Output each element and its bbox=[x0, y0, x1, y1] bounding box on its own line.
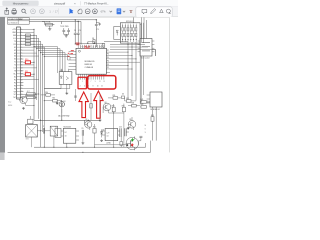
svg-text:D6: D6 bbox=[122, 94, 124, 96]
wire bbox=[56, 101, 58, 102]
circle around diode D3 bbox=[59, 102, 64, 107]
chip X3 bbox=[28, 119, 33, 124]
panel icon: comment bubble bbox=[142, 9, 147, 14]
wire bbox=[28, 119, 34, 121]
svg-text:11: 11 bbox=[99, 81, 101, 83]
wires to right bus bbox=[110, 51, 128, 53]
resistor R31 bbox=[113, 97, 118, 100]
test socket inner hatch bbox=[142, 42, 150, 44]
pin 4 wire bbox=[20, 37, 23, 39]
wire bbox=[113, 115, 115, 147]
red annotation mark bbox=[131, 143, 133, 146]
vertical bus mid bbox=[57, 47, 59, 73]
resistor RN1b bbox=[122, 33, 123, 37]
svg-text:L4960: L4960 bbox=[106, 143, 111, 145]
svg-text:R32: R32 bbox=[126, 98, 129, 100]
svg-text:R15: R15 bbox=[52, 98, 55, 100]
svg-text:D4: D4 bbox=[102, 130, 104, 132]
wire bbox=[23, 46, 44, 48]
wire y105 bbox=[61, 109, 63, 120]
wire bbox=[130, 24, 132, 28]
svg-text:MC68HC05: MC68HC05 bbox=[85, 61, 95, 63]
wire bbox=[124, 24, 126, 28]
pin 17 wire bbox=[20, 76, 23, 78]
wire bbox=[23, 88, 34, 90]
IC U3 bbox=[26, 125, 38, 137]
relay K1 bbox=[50, 126, 57, 136]
panel icon: loop bbox=[166, 9, 170, 13]
wire stubs top-left of IC bbox=[73, 46, 76, 48]
wire bbox=[75, 89, 77, 101]
ground bbox=[65, 34, 67, 35]
svg-text:B72: B72 bbox=[26, 139, 29, 141]
capacitor C9 bbox=[81, 130, 83, 136]
svg-text:R14: R14 bbox=[45, 92, 48, 94]
svg-text:04: 04 bbox=[107, 136, 109, 138]
wire bbox=[132, 24, 134, 28]
op-amp IC U1 bbox=[76, 48, 106, 74]
svg-text:R35: R35 bbox=[122, 105, 125, 107]
svg-text:C3: C3 bbox=[74, 30, 76, 32]
toolbar icon: hand bbox=[78, 9, 82, 14]
resistor RN4b bbox=[130, 33, 131, 37]
pin 11 wire bbox=[20, 58, 23, 60]
capacitor C10 bbox=[119, 128, 121, 137]
toolbar icon: print bbox=[12, 11, 16, 14]
page right edge bbox=[168, 17, 170, 152]
svg-text:C8: C8 bbox=[43, 126, 45, 128]
wire bbox=[23, 76, 34, 78]
svg-text:R42: R42 bbox=[141, 104, 144, 106]
wire bbox=[23, 64, 34, 66]
pin 15 wire bbox=[20, 70, 23, 72]
svg-text:C4: C4 bbox=[79, 30, 81, 32]
IC U1 right pins bbox=[106, 51, 110, 53]
svg-text:67%: 67% bbox=[101, 10, 107, 13]
ground bbox=[101, 139, 103, 140]
svg-text:20: 20 bbox=[95, 47, 97, 49]
toolbar icon: cursor (active blue) bbox=[70, 9, 74, 14]
wire bbox=[23, 31, 34, 33]
pin 19 wire bbox=[20, 82, 23, 84]
pin 6 wire bbox=[20, 43, 23, 45]
wire mid horizontal bbox=[34, 119, 100, 121]
wire bbox=[23, 67, 36, 69]
wire bbox=[75, 43, 78, 45]
capacitor C8 bbox=[42, 128, 44, 134]
wire bbox=[80, 22, 82, 44]
bridge diode box D1 bbox=[114, 27, 121, 40]
page view icon (blue) bbox=[117, 8, 122, 14]
pin 12 wire bbox=[20, 61, 23, 63]
tab: tools chip bbox=[3, 1, 39, 6]
title block bbox=[8, 18, 30, 25]
resistor R2 bbox=[25, 37, 30, 40]
resistor R11 (red highlight) bbox=[23, 73, 25, 75]
svg-text:3: 3 bbox=[82, 81, 83, 83]
svg-text:R41: R41 bbox=[141, 99, 144, 101]
wire bbox=[23, 94, 36, 96]
annotation panel bbox=[136, 7, 172, 17]
resistor R33 bbox=[132, 104, 137, 107]
transistor Q1 bbox=[20, 96, 27, 103]
bus top joins bbox=[104, 41, 128, 43]
svg-text:P7: P7 bbox=[107, 50, 109, 52]
pin 22 wire bbox=[20, 91, 23, 93]
diode D3 bbox=[61, 100, 63, 109]
svg-text:10: 10 bbox=[97, 86, 99, 88]
ground bbox=[99, 119, 101, 120]
svg-text:4K7: 4K7 bbox=[27, 91, 30, 93]
red annotation big box bbox=[88, 76, 116, 89]
pin 23 wire bbox=[20, 94, 23, 96]
ground bbox=[49, 28, 51, 29]
pin 8 wire bbox=[20, 49, 23, 51]
resistor RN3b bbox=[127, 33, 128, 37]
resistor RN1a bbox=[122, 25, 123, 26]
svg-text:R33: R33 bbox=[131, 103, 134, 105]
wire bbox=[25, 95, 27, 97]
wire socket down 2 bbox=[143, 56, 145, 95]
wire bbox=[23, 43, 42, 45]
wire bbox=[139, 101, 142, 103]
pin 7 wire bbox=[20, 46, 23, 48]
ground bbox=[99, 22, 101, 25]
wire bbox=[127, 24, 129, 28]
svg-text:CLIMA 98: CLIMA 98 bbox=[85, 66, 93, 69]
page top edge bbox=[5, 16, 169, 18]
capacitor C4 bbox=[77, 32, 80, 34]
pin 2 wire bbox=[20, 31, 23, 33]
resistor R41 bbox=[141, 101, 146, 104]
svg-text:P3: P3 bbox=[14, 85, 16, 87]
circle around diode D3 bbox=[59, 102, 64, 107]
toolbar icon: zoom out bbox=[85, 9, 90, 14]
svg-text:SP105.R: SP105.R bbox=[126, 21, 134, 23]
svg-text:S1: S1 bbox=[14, 47, 16, 49]
ground bbox=[56, 101, 58, 104]
svg-text:Test socket: Test socket bbox=[141, 57, 150, 60]
svg-text:Q3: Q3 bbox=[129, 119, 131, 121]
capacitor C11 bbox=[124, 128, 126, 136]
svg-text:C9: C9 bbox=[81, 128, 83, 130]
resistor R20 bbox=[103, 43, 105, 47]
svg-text:7: 7 bbox=[90, 81, 91, 83]
svg-text:K-L: K-L bbox=[13, 38, 16, 40]
resistor R34 bbox=[112, 107, 115, 112]
svg-text:GND4: GND4 bbox=[8, 105, 12, 107]
transistor Q4 bbox=[103, 103, 111, 111]
pin 3 wire bbox=[20, 34, 23, 36]
svg-text:S5: S5 bbox=[14, 59, 16, 61]
vertical bus lines left bbox=[33, 29, 35, 120]
connector J1 bbox=[17, 27, 21, 99]
red annotation small box bbox=[78, 77, 86, 89]
bottom bus wires bbox=[34, 146, 146, 148]
svg-text:R11: R11 bbox=[25, 71, 28, 73]
wire bbox=[26, 104, 34, 106]
wire bbox=[134, 135, 141, 137]
svg-text:B6FN 05: B6FN 05 bbox=[85, 64, 92, 66]
svg-text:9: 9 bbox=[95, 81, 96, 83]
resistor RN4a bbox=[130, 25, 131, 26]
capacitor C12 bbox=[139, 135, 142, 137]
wire bbox=[23, 49, 34, 51]
svg-text:12.73.00.00: 12.73.00.00 bbox=[8, 22, 17, 24]
junction dots bbox=[33, 46, 34, 47]
resistor RN5a bbox=[133, 25, 134, 26]
svg-text:T2: T2 bbox=[14, 65, 16, 67]
resistor R35 bbox=[122, 107, 125, 112]
left viewer strip bbox=[0, 17, 5, 153]
capacitor C2 bbox=[68, 28, 70, 30]
resistor RN2a bbox=[125, 25, 126, 26]
pin 13 wire bbox=[20, 64, 23, 66]
svg-text:R21: R21 bbox=[93, 127, 96, 129]
pin 24 wire bbox=[20, 96, 23, 98]
IC U6 bbox=[150, 92, 162, 107]
pin 16 wire bbox=[20, 73, 23, 75]
svg-text:P4: P4 bbox=[107, 60, 109, 62]
red pin label marks bbox=[21, 21, 156, 131]
wire bbox=[23, 34, 36, 36]
svg-text:L29: L29 bbox=[107, 132, 110, 134]
svg-text:Инструменты: Инструменты bbox=[13, 2, 29, 5]
wire bbox=[23, 37, 38, 39]
ground bbox=[127, 126, 129, 129]
svg-text:Q4: Q4 bbox=[104, 102, 106, 104]
svg-text:R34: R34 bbox=[112, 105, 115, 107]
resistor R13 bbox=[27, 96, 36, 99]
OK1 pins bbox=[60, 84, 62, 88]
junction dots on left bus bbox=[34, 29, 35, 30]
svg-text:P2: P2 bbox=[14, 82, 16, 84]
svg-text:R31: R31 bbox=[113, 95, 116, 97]
transistor Q2 bbox=[85, 121, 92, 128]
svg-text:P1: P1 bbox=[14, 79, 16, 81]
svg-text:34: 34 bbox=[65, 135, 67, 137]
capacitor C1 bbox=[63, 28, 65, 30]
wire bbox=[53, 136, 55, 147]
red annotation arrow 1 bbox=[79, 92, 88, 118]
IC U4 bbox=[63, 128, 76, 143]
pdf page bbox=[0, 17, 178, 160]
wire bbox=[23, 28, 34, 30]
svg-text:77-Markus Freye-Kl...: 77-Markus Freye-Kl... bbox=[84, 1, 109, 5]
wire bbox=[122, 24, 124, 28]
svg-text:R5: R5 bbox=[92, 38, 94, 40]
resistor R10 (red highlight) bbox=[23, 61, 25, 63]
ground bbox=[23, 107, 25, 108]
wire behind arrows bbox=[90, 93, 92, 120]
toolbar icon: zoom in bbox=[93, 9, 98, 14]
panel icon: pen bbox=[151, 9, 156, 14]
pin 5 wire bbox=[20, 40, 23, 42]
wire bbox=[37, 130, 42, 132]
wire below opto bbox=[44, 88, 61, 90]
svg-text:P2: P2 bbox=[107, 67, 109, 69]
svg-text:S3: S3 bbox=[14, 53, 16, 55]
junction dot bbox=[127, 144, 129, 146]
IC U1 bottom pins bbox=[77, 74, 79, 79]
wires into IC left pins bbox=[68, 59, 73, 61]
toolbar icon: circled up (disabled) bbox=[31, 9, 36, 14]
IC U5 bbox=[105, 129, 118, 141]
IC U1 top pins bbox=[77, 45, 79, 49]
resistor R1 bbox=[25, 34, 30, 37]
svg-text:P6: P6 bbox=[107, 54, 109, 56]
green annotation arrow bbox=[131, 138, 133, 141]
pin 10 wire bbox=[20, 55, 23, 57]
wire below opto bbox=[44, 88, 61, 90]
resistor R12 bbox=[27, 93, 36, 96]
resistor R3 bbox=[25, 40, 30, 43]
svg-text:C10: C10 bbox=[119, 126, 122, 128]
svg-text:P5: P5 bbox=[107, 57, 109, 59]
svg-text:R10: R10 bbox=[25, 59, 28, 61]
wire bbox=[87, 121, 89, 125]
IC X2 test socket bbox=[141, 17, 143, 38]
resistor RN6b bbox=[136, 33, 137, 37]
svg-text:12: 12 bbox=[101, 86, 103, 88]
svg-text:23: 23 bbox=[88, 47, 90, 49]
resistor R21 bbox=[93, 128, 96, 133]
svg-text:26: 26 bbox=[82, 47, 84, 49]
resistor R15 bbox=[53, 99, 58, 102]
pin 20 wire bbox=[20, 85, 23, 87]
capacitor C3 bbox=[74, 32, 77, 34]
wire bbox=[135, 24, 137, 28]
pin 14 wire bbox=[20, 67, 23, 69]
resistor R5 bbox=[93, 40, 95, 44]
wire bbox=[23, 52, 36, 54]
wire bbox=[23, 79, 38, 81]
fuse F1 bbox=[42, 21, 45, 23]
toolbar icon: circled down (disabled) bbox=[40, 9, 45, 14]
pin 9 wire bbox=[20, 52, 23, 54]
top right extended wires bbox=[152, 49, 156, 51]
svg-text:S2: S2 bbox=[67, 115, 69, 117]
svg-text:K1: K1 bbox=[55, 127, 57, 129]
resistor R14 bbox=[46, 94, 51, 97]
svg-text:F1: F1 bbox=[46, 21, 48, 23]
wire bbox=[23, 40, 40, 42]
resistor R43 bbox=[151, 117, 154, 122]
svg-text:C5: C5 bbox=[97, 29, 99, 31]
wire stubs top-left of IC bbox=[73, 46, 76, 48]
resistor R4 bbox=[25, 43, 30, 46]
svg-text:Q2: Q2 bbox=[85, 119, 87, 121]
svg-text:17: 17 bbox=[101, 47, 103, 49]
svg-text:1K: 1K bbox=[26, 95, 28, 97]
wire bbox=[23, 55, 38, 57]
svg-text:D3: D3 bbox=[63, 101, 65, 103]
wire bbox=[56, 101, 58, 102]
toolbar icon: search magnifier bbox=[22, 9, 25, 12]
panel icon: shape bbox=[160, 9, 164, 13]
wire bbox=[140, 23, 142, 43]
wire pair down from bus bbox=[74, 20, 76, 33]
browser chrome background bbox=[0, 0, 178, 6]
ground bbox=[66, 92, 68, 93]
svg-text:M+: M+ bbox=[14, 74, 16, 76]
bus fan wires bbox=[34, 46, 58, 48]
test socket inner hatch bbox=[142, 42, 150, 44]
transistor Q5 (annotated) bbox=[126, 137, 138, 149]
zener D4 bbox=[101, 129, 103, 137]
box X4 bbox=[55, 128, 61, 137]
svg-text:MC34063: MC34063 bbox=[64, 127, 71, 129]
svg-text:cimca.pdf: cimca.pdf bbox=[54, 1, 65, 5]
svg-text:P3: P3 bbox=[107, 64, 109, 66]
resistor R17 bbox=[90, 104, 93, 108]
svg-text:TJ13 7805: TJ13 7805 bbox=[60, 26, 69, 28]
pin 18 wire bbox=[20, 79, 23, 81]
svg-text:R43: R43 bbox=[151, 115, 154, 117]
junction dots on left bus bbox=[34, 29, 35, 30]
wire bbox=[22, 27, 24, 29]
wire bbox=[95, 144, 126, 146]
resistor R32 bbox=[126, 100, 131, 103]
resistor R42 bbox=[141, 106, 146, 109]
top bus wires bbox=[8, 19, 97, 21]
ground bbox=[127, 126, 129, 129]
capacitor C5 bbox=[95, 20, 97, 25]
svg-text:T1: T1 bbox=[14, 62, 16, 64]
svg-text:S4: S4 bbox=[14, 56, 16, 58]
resistor RN5b bbox=[133, 33, 134, 37]
resistor RN6a bbox=[136, 25, 137, 26]
transistor Q3 bbox=[128, 121, 136, 129]
wire bbox=[57, 100, 62, 102]
svg-text:X1-2: X1-2 bbox=[8, 102, 11, 104]
wire bbox=[61, 88, 70, 90]
toolbar icon: share bbox=[5, 10, 9, 14]
pin 1 wire bbox=[20, 28, 23, 30]
ground bbox=[82, 142, 84, 143]
svg-text:S2: S2 bbox=[14, 50, 16, 52]
vertical bus right bbox=[127, 42, 129, 100]
svg-text:T: T bbox=[130, 9, 133, 14]
diode D6 bbox=[121, 96, 124, 98]
wire socket down 1 bbox=[140, 56, 142, 102]
wire y105 bbox=[61, 109, 63, 120]
top right extended wires bbox=[152, 49, 156, 51]
resistor RN2b bbox=[125, 33, 126, 37]
svg-text:×: × bbox=[74, 2, 76, 6]
red annotation arrow 2 bbox=[94, 91, 103, 118]
svg-text:P4: P4 bbox=[14, 88, 16, 90]
pin 21 wire bbox=[20, 88, 23, 90]
wire mid horizontal bbox=[34, 119, 100, 121]
wire bbox=[99, 95, 101, 119]
ground bbox=[56, 101, 58, 104]
resistor RN3a bbox=[127, 25, 128, 26]
svg-text:13: 13 bbox=[103, 81, 105, 83]
diode D7 bbox=[147, 101, 150, 103]
resistor R52 bbox=[120, 142, 123, 146]
